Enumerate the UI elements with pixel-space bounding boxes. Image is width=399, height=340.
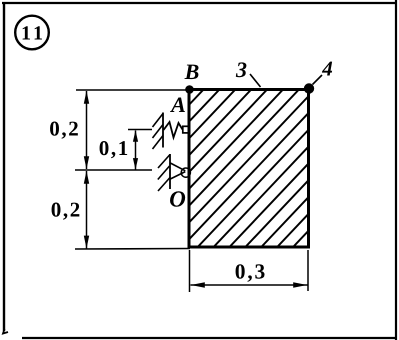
label 4 [322, 62, 332, 76]
dimension 0,3 line [191, 282, 308, 287]
pivot support hatch ticks [158, 155, 170, 192]
spring end loop [183, 126, 189, 133]
frame border top [2, 2, 397, 4]
frame border left [3, 2, 5, 331]
dimension 0,2 upper line [84, 91, 89, 169]
leader line 3 [250, 74, 261, 87]
dimension label 0,1 [100, 141, 128, 158]
label 3 [236, 62, 247, 77]
dimension label 0,3 [236, 264, 265, 282]
dimension label 0,2 upper [50, 122, 78, 139]
frame border right [395, 0, 397, 340]
dimension 0,3 right extension [307, 250, 309, 291]
pivot support base line [169, 154, 171, 189]
leader line 4 [313, 75, 323, 85]
extension line middle at O level [75, 169, 152, 171]
extension line bottom [75, 248, 190, 251]
corner point 4 [304, 83, 314, 93]
problem number badge circle [15, 16, 49, 50]
plate outline [189, 90, 309, 248]
frame border bottom [22, 337, 395, 339]
problem number 11 [23, 26, 42, 39]
dimension label 0,2 lower [52, 203, 80, 220]
pivot support triangle [170, 163, 185, 179]
dimension 0,3 left extension [189, 250, 191, 292]
spring anchor wall hatch ticks [153, 114, 164, 150]
label A [170, 97, 185, 112]
plate hatching [55, 90, 399, 248]
label B [184, 65, 198, 79]
label O [170, 191, 185, 206]
pivot hinge circle [181, 168, 190, 177]
dimension 0,1 line [133, 130, 138, 169]
corner point B [185, 85, 194, 94]
extension line top left of B [76, 89, 189, 91]
extension line at A level spring axis [128, 129, 152, 131]
spring anchor wall line [162, 113, 164, 148]
frame border left bottom hook [3, 329, 8, 334]
dimension 0,2 lower line [84, 171, 89, 249]
spring [164, 122, 183, 138]
